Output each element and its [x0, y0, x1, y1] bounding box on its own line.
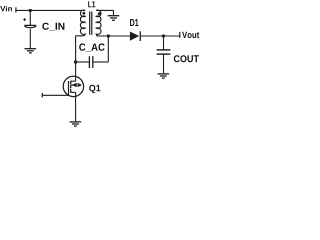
- label COUT: [174, 55, 199, 62]
- transistor Q1 body circle: [63, 76, 83, 96]
- transformer core: [89, 12, 91, 35]
- label C_AC: [79, 43, 105, 52]
- wire C_IN top: [29, 10, 31, 25]
- capacitor C_AC: [88, 56, 90, 68]
- wire COUT top: [163, 36, 165, 50]
- label D1: [130, 19, 138, 26]
- Q1 body connect: [71, 84, 76, 86]
- wire right winding top to ground: [96, 9, 113, 11]
- diode D1: [130, 32, 139, 41]
- transformer L1 left winding: [76, 10, 86, 36]
- Q1 channel bar: [70, 81, 72, 93]
- node primary bottom / C_AC: [74, 60, 77, 63]
- wire C_AC right: [93, 61, 108, 63]
- label Vin: [0, 6, 12, 12]
- label C_IN: [42, 23, 64, 31]
- wire C_AC left: [76, 61, 89, 63]
- Q1 gate bar: [68, 81, 70, 95]
- junction dots: [29, 9, 165, 64]
- polarity dot secondary: [98, 12, 101, 15]
- wire C_IN bottom: [29, 29, 31, 49]
- Q1 source connect: [71, 91, 76, 93]
- label Vout: [182, 32, 199, 38]
- terminal Vout: [179, 32, 181, 38]
- Q1 gate wire: [42, 94, 68, 96]
- node secondary bottom / C_AC: [107, 34, 110, 37]
- capacitor COUT: [157, 49, 171, 51]
- Q1 drain connect: [71, 80, 76, 82]
- wire diode anode: [141, 35, 180, 37]
- ground under COUT: [158, 74, 170, 78]
- transformer L1 right winding: [96, 10, 130, 36]
- ground under Q1: [70, 122, 82, 126]
- ground at transformer secondary top: [108, 16, 120, 21]
- wire primary bottom down to Q1 drain: [75, 36, 77, 81]
- node Vout / COUT: [162, 34, 165, 37]
- Q1 source wire down: [75, 92, 77, 122]
- wire Vin rail: [16, 9, 85, 11]
- node Vin/C_IN: [29, 9, 32, 12]
- terminal Vin: [15, 7, 17, 12]
- Q1 internal arrows: [71, 83, 82, 87]
- label Q1: [89, 85, 100, 93]
- capacitor C_IN: [24, 24, 36, 26]
- terminal gate: [41, 93, 43, 98]
- polarity dot primary: [82, 12, 85, 15]
- label L1: [88, 1, 95, 7]
- ground under C_IN: [25, 49, 37, 53]
